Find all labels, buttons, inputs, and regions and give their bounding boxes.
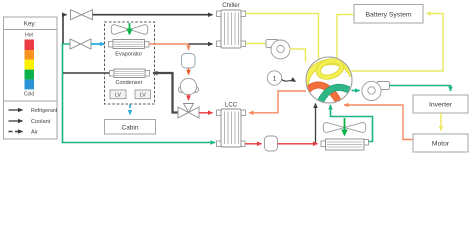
svg-text:Battery System: Battery System (365, 12, 411, 19)
key legend: air arrow (9, 130, 38, 136)
multiport valve yellow channel B (316, 58, 344, 80)
node 1 leader arrow (282, 80, 296, 82)
multiport valve orange channel (302, 85, 341, 107)
HVAC dashed enclosure (105, 22, 155, 104)
wire: black riser to valve V1 (63, 15, 67, 44)
svg-text:LCC: LCC (225, 102, 238, 109)
cabin box (105, 120, 156, 135)
key legend: coolant arrow (9, 119, 51, 125)
node 1 label circle (267, 71, 281, 85)
multiport valve body (306, 57, 352, 103)
LV box 2 (135, 90, 151, 99)
wire: yellow pump P1 to valve (290, 49, 306, 62)
fan F2 blades (323, 123, 366, 133)
svg-text:LV: LV (115, 93, 121, 99)
wire: red LCC bottom to receiver (245, 143, 262, 145)
battery system box (354, 5, 423, 24)
svg-text:Coolant: Coolant (31, 119, 51, 125)
wire: yellow valve to battery left (337, 15, 354, 61)
wire: dark run junction to chiller bottom-left port (189, 43, 213, 45)
wire: orange accumulator to compressor (188, 68, 190, 75)
3-way valve (178, 104, 199, 119)
wire: yellow valve right to battery right loop (352, 14, 444, 72)
svg-text:Hot: Hot (25, 32, 33, 38)
wire: teal pump P3 to inverter (390, 86, 451, 92)
wire: red compressor to 3-way valve (188, 95, 190, 101)
wire: yellow inverter to motor (440, 113, 442, 131)
svg-text:Evaporator: Evaporator (115, 51, 142, 57)
wire: teal stub into valve V2 (63, 43, 70, 45)
svg-text:Key:: Key: (24, 21, 37, 28)
wire: cyan dashed air feed to cabin (129, 105, 131, 115)
svg-text:Air: Air (31, 130, 38, 136)
accumulator (182, 54, 196, 69)
wire: orange drop into accumulator (188, 44, 190, 50)
fan F1 air-flow green arrow (129, 23, 131, 34)
wire: orange from evaporator to junction (149, 43, 189, 45)
wire: orange motor loop to valve bottom (344, 105, 413, 140)
wire: teal radiator loop to valve bottom (331, 105, 373, 142)
pump P1 (266, 40, 290, 60)
fan F1 blades (111, 25, 148, 35)
LCC (217, 102, 246, 148)
key legend box (4, 17, 58, 139)
wire: red 3-way valve to LCC left port (199, 112, 213, 114)
svg-text:Condenser: Condenser (116, 80, 143, 86)
wire: red receiver to radiator (278, 143, 318, 145)
receiver bottle (265, 136, 278, 151)
wire: teal valve to pump P3 (352, 90, 360, 92)
wire: yellow chiller bottom to pump P1 (246, 43, 267, 45)
wire: teal coolant main (left riser + bottom run to LCC) (63, 43, 216, 143)
svg-text:Cold: Cold (24, 92, 35, 98)
key legend: refrigerant arrow (9, 108, 58, 114)
wire: cyan run valve V2 to evaporator (91, 43, 105, 45)
evaporator (109, 40, 150, 58)
svg-text:Refrigerant: Refrigerant (31, 108, 58, 114)
svg-text:Inverter: Inverter (429, 102, 453, 109)
LV box 1 (110, 90, 126, 99)
wire: black run teal riser to condenser left port (63, 72, 110, 74)
svg-text:1: 1 (273, 76, 277, 83)
key temperature scale: hot (25, 40, 35, 51)
wire: thick gray from 3-way valve up into condenser right port (153, 73, 178, 113)
svg-text:LV: LV (140, 93, 146, 99)
multiport valve yellow channel A (305, 62, 352, 88)
wire: black top run to chiller (93, 14, 213, 16)
svg-text:Chiller: Chiller (222, 2, 240, 9)
wire: yellow chiller top to valve (246, 14, 319, 61)
svg-text:Cabin: Cabin (122, 125, 139, 132)
pump P3 (362, 81, 390, 100)
key temperature scale: cold (25, 80, 35, 90)
wire: orange valve to LCC right port (249, 91, 306, 113)
fan F2 air-flow green arrow (344, 118, 346, 135)
wire: black riser red line to valve bottom (315, 104, 317, 144)
radiator (321, 139, 369, 150)
chiller (217, 2, 246, 48)
compressor (179, 78, 199, 94)
valve V2 (70, 39, 91, 49)
inverter box (413, 95, 468, 113)
valve V1 (71, 10, 93, 20)
svg-text:Motor: Motor (432, 141, 450, 148)
motor box (413, 134, 468, 152)
condenser (110, 69, 150, 86)
multiport valve green channel (318, 87, 354, 107)
